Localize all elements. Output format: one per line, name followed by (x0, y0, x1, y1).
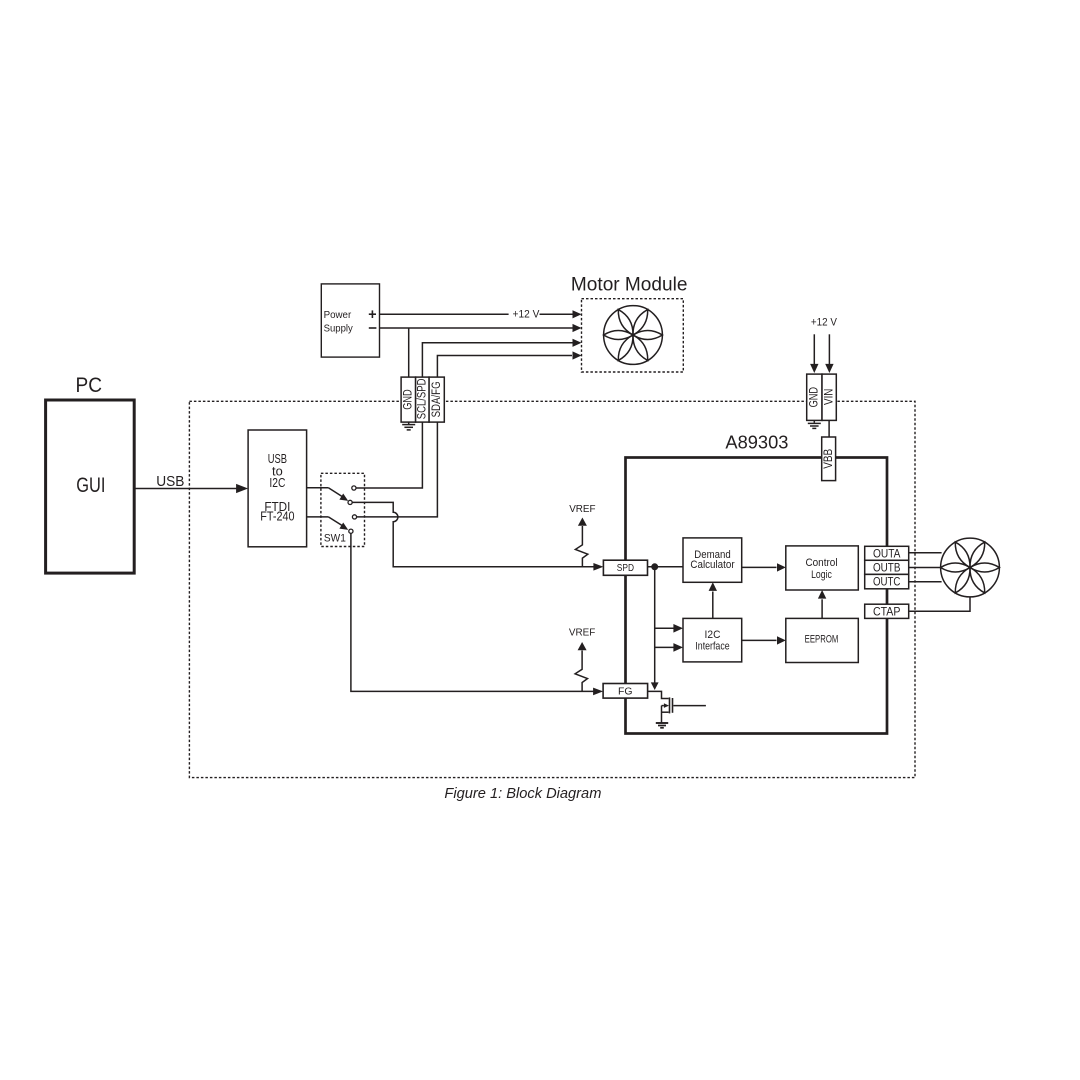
svg-text:OUTB: OUTB (873, 560, 901, 574)
svg-text:Logic: Logic (811, 569, 832, 581)
svg-text:+12 V: +12 V (811, 316, 838, 328)
svg-text:VREF: VREF (569, 626, 595, 638)
svg-text:SW1: SW1 (324, 533, 346, 545)
svg-text:Control: Control (805, 557, 837, 569)
svg-text:SPD: SPD (617, 563, 634, 574)
svg-text:GND: GND (402, 389, 414, 409)
svg-text:SCL/SPD: SCL/SPD (417, 379, 429, 420)
svg-text:Figure 1: Block Diagram: Figure 1: Block Diagram (444, 786, 601, 802)
svg-text:I2C: I2C (269, 475, 285, 490)
svg-text:+12 V: +12 V (513, 308, 541, 320)
svg-text:Interface: Interface (695, 641, 729, 653)
svg-text:GUI: GUI (76, 474, 105, 497)
svg-text:OUTC: OUTC (873, 575, 901, 589)
svg-text:USB: USB (156, 474, 184, 490)
svg-text:Power: Power (324, 309, 352, 321)
svg-text:I2C: I2C (705, 629, 721, 641)
svg-text:CTAP: CTAP (873, 604, 901, 618)
svg-text:VIN: VIN (823, 389, 835, 405)
svg-text:FG: FG (618, 685, 633, 697)
svg-text:A89303: A89303 (725, 433, 788, 453)
svg-text:EEPROM: EEPROM (805, 633, 839, 645)
svg-text:FT-240: FT-240 (260, 509, 294, 524)
svg-text:VREF: VREF (569, 503, 595, 515)
svg-text:OUTA: OUTA (873, 546, 901, 560)
svg-text:PC: PC (76, 374, 103, 397)
svg-text:Calculator: Calculator (690, 559, 735, 571)
svg-text:Motor Module: Motor Module (571, 275, 688, 296)
svg-text:Supply: Supply (324, 322, 354, 334)
svg-text:GND: GND (809, 387, 821, 407)
svg-text:SDA/FG: SDA/FG (431, 381, 443, 417)
svg-text:VBB: VBB (823, 449, 835, 469)
